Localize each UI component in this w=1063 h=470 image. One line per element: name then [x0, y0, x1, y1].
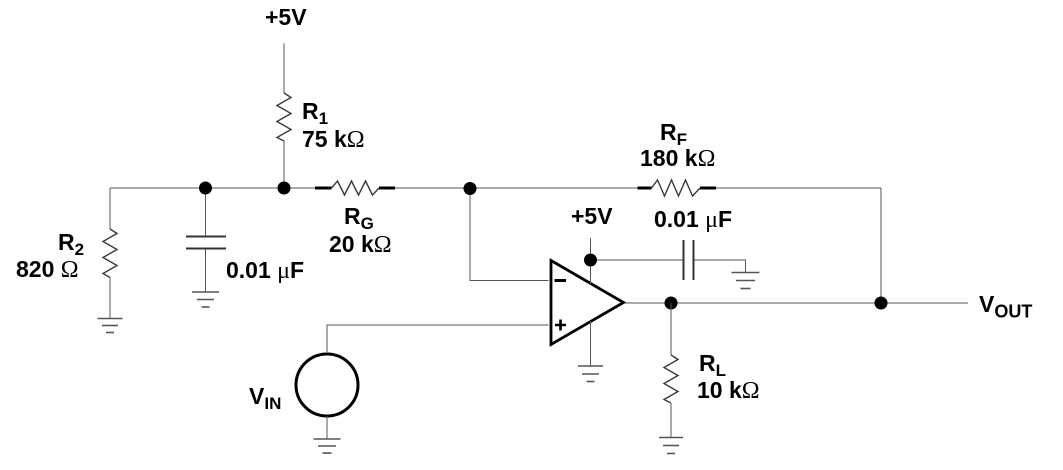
wire from RG to RF [395, 187, 638, 189]
wire op-amp output [625, 302, 968, 304]
wire cap to ground [205, 250, 207, 292]
svg-text:+5V: +5V [265, 4, 307, 30]
svg-text:820 Ω: 820 Ω [16, 256, 79, 283]
wire +5V to op-amp top [590, 238, 592, 284]
ground below RL [659, 438, 683, 454]
wire from +5V down to R1 [283, 44, 285, 94]
wire from R1 to main node [283, 141, 285, 186]
wire VIN to ground [326, 416, 328, 439]
ground right of cap C2 [732, 273, 760, 289]
ground below R2 [98, 319, 123, 333]
wire output to RL [670, 303, 672, 355]
wire RL to ground [670, 403, 672, 437]
wire node to bypass cap C1 [205, 188, 207, 236]
resistor RG [315, 187, 332, 190]
wire op-amp supply to bypass cap C2 [591, 259, 683, 261]
node dot output right [875, 297, 888, 310]
resistor R2 [103, 229, 117, 278]
resistor RL [664, 355, 678, 403]
node dot R1 [278, 182, 291, 195]
wire main horizontal node (y=188) [110, 187, 315, 189]
capacitor 0.01 uF (right) [684, 240, 694, 280]
svg-text:0.01 μF: 0.01 μF [226, 257, 304, 284]
wire feedback tap down from main node [470, 188, 549, 281]
resistor R2 branch wire [109, 188, 111, 229]
wire op-amp bottom to ground [590, 321, 592, 366]
wire plus input from VIN [327, 325, 549, 352]
op-amp minus symbol [555, 279, 567, 282]
svg-text:+5V: +5V [571, 203, 613, 229]
ground below VIN [314, 439, 341, 453]
resistor RF [638, 187, 652, 190]
node dot output [665, 297, 678, 310]
svg-text:20 kΩ: 20 kΩ [329, 231, 392, 258]
svg-text:180 kΩ: 180 kΩ [640, 145, 715, 172]
wire R2 to ground [109, 278, 111, 319]
op-amp plus symbol [555, 320, 566, 331]
node dot feedback tap [464, 182, 477, 195]
svg-text:0.01 μF: 0.01 μF [654, 206, 732, 233]
wire from RF to right corner [716, 187, 881, 189]
wire right feedback drop [880, 188, 882, 303]
node dot left cap [199, 182, 212, 195]
svg-text:10 kΩ: 10 kΩ [697, 377, 760, 404]
capacitor 0.01 uF (left) [186, 237, 226, 249]
resistor R1 [277, 93, 291, 141]
node dot op-amp supply [584, 254, 597, 267]
op-amp U1 [551, 261, 624, 345]
ground below op-amp [578, 366, 603, 382]
svg-text:75 kΩ: 75 kΩ [302, 126, 365, 153]
wire cap C2 to ground [695, 260, 746, 272]
source VIN [296, 354, 358, 416]
ground below left cap [192, 292, 219, 307]
